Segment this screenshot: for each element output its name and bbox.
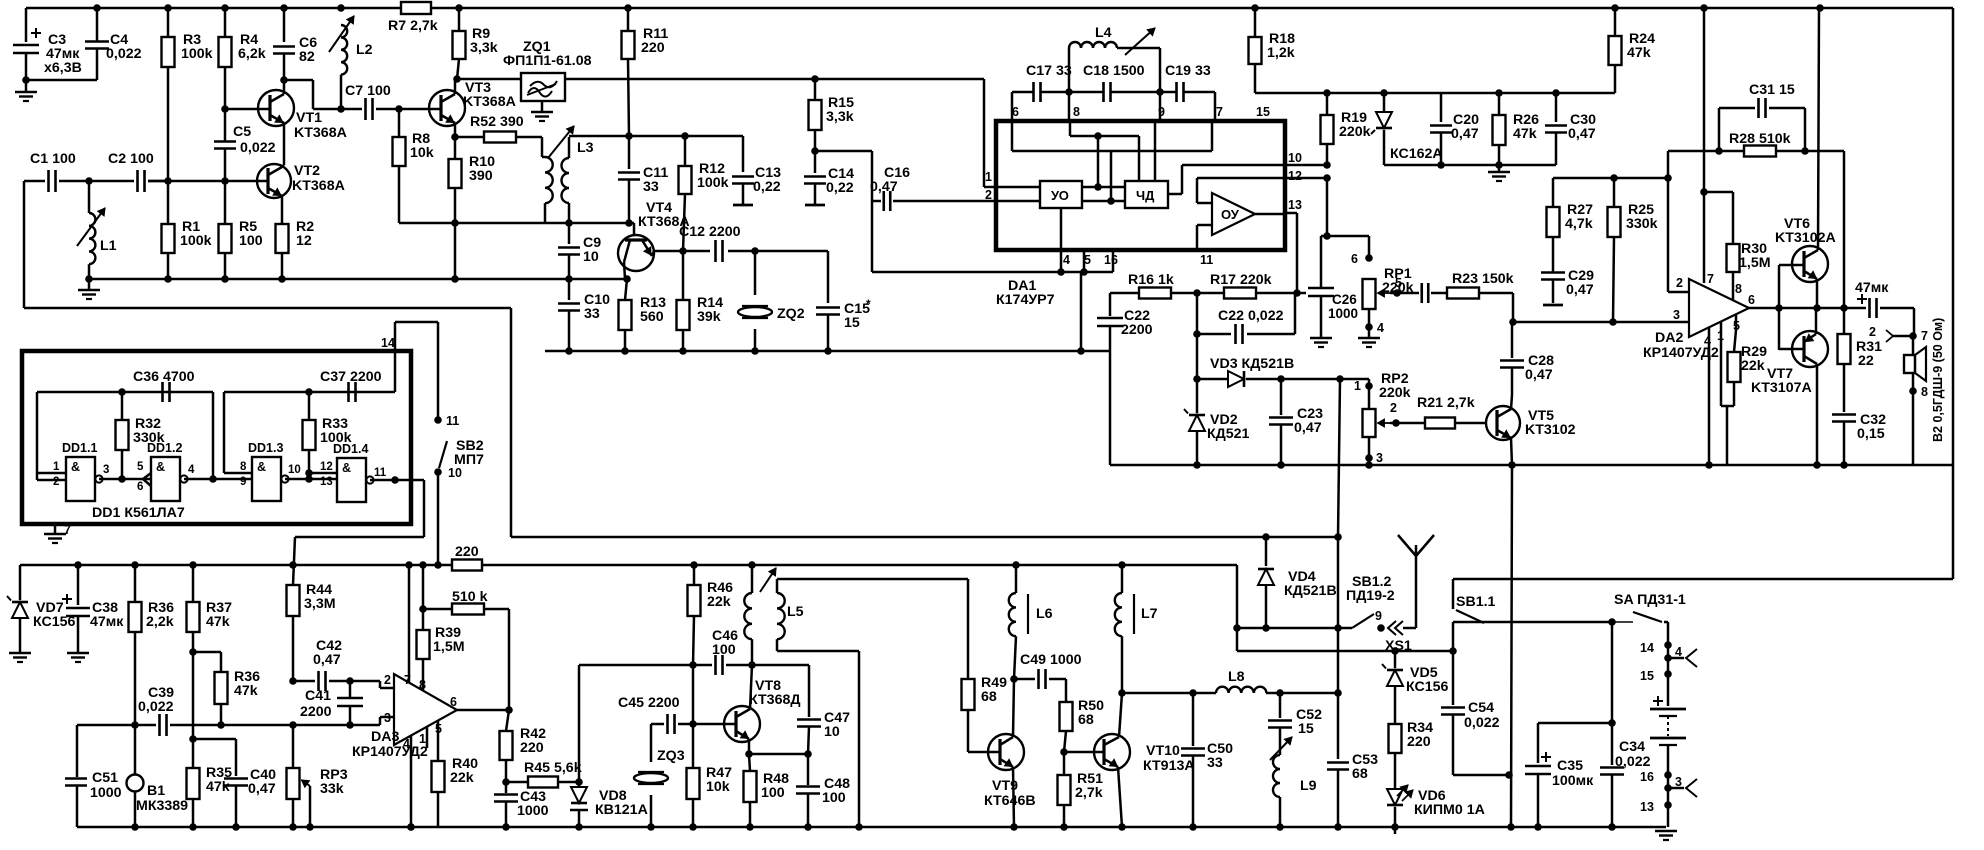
- node R33 to DD1.4 inputs: [305, 469, 313, 477]
- svg-text:330k: 330k: [1626, 216, 1658, 232]
- node y165 junctions: [1323, 161, 1331, 169]
- microphone B1: [134, 725, 137, 775]
- svg-text:47k: 47k: [206, 779, 230, 795]
- svg-text:7: 7: [1216, 105, 1223, 119]
- svg-text:0,47: 0,47: [870, 179, 898, 195]
- svg-text:C22 0,022: C22 0,022: [1218, 308, 1284, 324]
- resistor R25: [1610, 174, 1618, 182]
- node R42 bottom: [502, 778, 510, 786]
- svg-text:L8: L8: [1228, 669, 1245, 685]
- inductor L3 left winding: [541, 137, 544, 157]
- svg-text:82: 82: [299, 49, 315, 65]
- resistor R47: [692, 724, 695, 768]
- svg-text:0,022: 0,022: [1615, 754, 1651, 770]
- svg-text:12: 12: [1288, 169, 1302, 183]
- wire y628 line: [1237, 627, 1352, 630]
- node R16/R17: [1193, 289, 1201, 297]
- svg-text:7: 7: [1921, 329, 1928, 343]
- svg-text:7: 7: [64, 523, 71, 537]
- capacitor C22 2200: [1109, 293, 1112, 316]
- svg-text:0,022: 0,022: [138, 699, 174, 715]
- wire speaker feed: [1913, 308, 1916, 336]
- svg-text:6: 6: [450, 695, 457, 709]
- gate DD1.1 pins: [37, 472, 66, 475]
- node pin12 junction: [1323, 174, 1331, 182]
- svg-text:ZQ2: ZQ2: [777, 306, 805, 322]
- svg-text:2: 2: [1676, 276, 1683, 290]
- svg-text:L9: L9: [1300, 778, 1317, 794]
- svg-text:KT3102A: KT3102A: [1775, 230, 1836, 246]
- capacitor C34: [1611, 622, 1614, 723]
- block ЧД: [1125, 181, 1168, 208]
- wire receive line y537: [511, 536, 1338, 539]
- svg-text:1000: 1000: [90, 785, 122, 801]
- svg-text:ПД19-2: ПД19-2: [1346, 588, 1395, 604]
- svg-text:VT1: VT1: [296, 110, 322, 126]
- capacitor C6: [283, 8, 286, 42]
- svg-text:0,47: 0,47: [248, 781, 276, 797]
- node C54 to main column: [1505, 771, 1513, 779]
- wire pin12 down to RP1: [1326, 178, 1329, 236]
- resistor R50: [1060, 702, 1073, 731]
- svg-text:К174УР7: К174УР7: [996, 292, 1055, 308]
- wire pin3 line y322: [1513, 321, 1689, 324]
- capacitor C10: [568, 279, 571, 300]
- pin 7 ground: [54, 524, 57, 533]
- IC DD1 box: [22, 351, 411, 524]
- svg-text:&: &: [342, 461, 351, 475]
- wire DA3 output: [457, 709, 509, 712]
- svg-text:0,15: 0,15: [1857, 426, 1885, 442]
- node DD1.2 output: [209, 475, 217, 483]
- svg-text:C41: C41: [305, 688, 331, 704]
- svg-text:0,22: 0,22: [753, 179, 781, 195]
- node XS1 junctions: [1391, 647, 1399, 655]
- svg-text:10: 10: [448, 466, 462, 480]
- node R25 bottom: [1609, 318, 1617, 326]
- svg-text:3: 3: [1673, 308, 1680, 322]
- node R44 bottom: [289, 677, 297, 685]
- svg-text:12: 12: [320, 461, 333, 473]
- wire pin 12 to ОУ input: [1197, 177, 1285, 180]
- node VT1 collector: [280, 76, 288, 84]
- wire squelch column x1338: [1338, 379, 1340, 537]
- node C3/C4: [22, 76, 30, 84]
- svg-text:14: 14: [1640, 641, 1654, 655]
- ground L1: [88, 279, 91, 290]
- resistor R51: [1063, 752, 1066, 775]
- svg-text:C1 100: C1 100: [30, 151, 76, 167]
- capacitor C7: [341, 108, 362, 111]
- svg-text:100: 100: [239, 233, 263, 249]
- svg-text:8: 8: [240, 461, 247, 473]
- svg-text:1: 1: [985, 170, 992, 184]
- wire DD1.4 output to R44: [423, 480, 426, 537]
- capacitor C39: [158, 714, 161, 736]
- svg-text:68: 68: [1352, 766, 1368, 782]
- transistor VT2: [257, 164, 291, 198]
- node y628 junctions: [1233, 624, 1241, 632]
- resistor R27: [1552, 178, 1555, 207]
- svg-text:3,3k: 3,3k: [470, 40, 498, 56]
- inductor L3 right winding: [568, 137, 571, 158]
- svg-text:2: 2: [53, 476, 59, 488]
- svg-text:100k: 100k: [697, 175, 729, 191]
- diode VD4: [1262, 533, 1270, 541]
- capacitor C13: [742, 136, 745, 172]
- svg-text:&: &: [257, 460, 266, 474]
- inductor L7: [1121, 565, 1124, 593]
- node contact 14: [1664, 641, 1672, 649]
- svg-text:22k: 22k: [707, 594, 731, 610]
- svg-text:6: 6: [1748, 293, 1755, 307]
- svg-text:220: 220: [1407, 734, 1431, 750]
- pin 16 external: [1112, 250, 1115, 272]
- capacitor C26: [1308, 287, 1334, 290]
- transistor VT6: [1792, 246, 1828, 282]
- svg-text:0,47: 0,47: [313, 652, 341, 668]
- connector XS1: [1388, 621, 1396, 635]
- capacitor C23: [1277, 375, 1285, 383]
- svg-text:3,3M: 3,3M: [304, 596, 336, 612]
- svg-text:0,022: 0,022: [106, 46, 142, 62]
- resistor R33: [305, 388, 313, 396]
- node VT9 collector / C49 / L6: [1010, 675, 1018, 683]
- wire varactor line y665: [579, 664, 712, 667]
- resistor R10: [454, 137, 457, 159]
- svg-text:&: &: [71, 460, 80, 474]
- node VT10 base: [1060, 748, 1068, 756]
- pin 12 external: [1285, 177, 1327, 180]
- svg-text:100мк: 100мк: [1552, 773, 1594, 789]
- wire ОУ output pin 13: [1255, 213, 1285, 216]
- capacitor C53: [1337, 693, 1340, 759]
- wire ground bus A: [89, 278, 627, 281]
- resistor R12: [684, 136, 687, 166]
- crystal filter ZQ1: [521, 73, 565, 101]
- svg-text:4,7k: 4,7k: [1565, 216, 1593, 232]
- svg-text:16: 16: [1640, 770, 1654, 784]
- svg-text:C37 2200: C37 2200: [320, 369, 382, 385]
- svg-text:C34: C34: [1619, 739, 1645, 755]
- zener diode VD1 КС162А: [1383, 93, 1386, 112]
- svg-text:C49 1000: C49 1000: [1020, 652, 1082, 668]
- ground R26: [1498, 165, 1501, 172]
- svg-text:10: 10: [583, 249, 599, 265]
- svg-text:5: 5: [1395, 276, 1402, 290]
- node y93 junctions: [1323, 89, 1331, 97]
- transistor VT5: [1486, 406, 1520, 440]
- svg-text:L7: L7: [1141, 606, 1158, 622]
- gate DD1.1: [66, 457, 95, 501]
- svg-text:C2 100: C2 100: [108, 151, 154, 167]
- resistor R23: [1447, 288, 1479, 299]
- capacitor C3: [25, 8, 28, 42]
- wire top supply bus: [26, 7, 401, 10]
- inductor L2: [341, 25, 347, 75]
- svg-text:68: 68: [1078, 712, 1094, 728]
- svg-text:33: 33: [643, 179, 659, 195]
- svg-text:5: 5: [1084, 253, 1091, 267]
- svg-text:KT368A: KT368A: [292, 178, 345, 194]
- capacitor C4: [96, 8, 99, 42]
- svg-text:КС156: КС156: [1406, 679, 1448, 695]
- wire pin7 supply: [1703, 8, 1706, 283]
- svg-text:0,47: 0,47: [1525, 367, 1553, 383]
- wire feedback 510k line: [423, 608, 452, 611]
- node L4 right: [1156, 88, 1164, 96]
- gate DD1.3: [252, 457, 281, 501]
- svg-text:0,022: 0,022: [240, 140, 276, 156]
- capacitor C17: [1032, 82, 1035, 102]
- svg-text:0,47: 0,47: [1566, 282, 1594, 298]
- potentiometer RP2: [1368, 379, 1371, 386]
- wire SA to battery column: [1664, 621, 1668, 624]
- crystal ZQ2: [754, 251, 757, 295]
- gate DD1.4: [337, 458, 366, 502]
- transistor VT1: [258, 90, 294, 126]
- wire C17-C19 line: [1012, 91, 1034, 94]
- wire УО to ЧД lower: [1082, 200, 1125, 203]
- node C52 top: [1276, 689, 1284, 697]
- svg-text:47k: 47k: [1627, 45, 1651, 61]
- svg-text:R23 150k: R23 150k: [1452, 271, 1514, 287]
- svg-text:1: 1: [1354, 379, 1361, 393]
- zener diode VD2: [1196, 379, 1199, 413]
- svg-text:15: 15: [1640, 669, 1654, 683]
- svg-text:&: &: [156, 460, 165, 474]
- svg-text:DA2: DA2: [1655, 330, 1683, 346]
- capacitor C19: [1175, 82, 1178, 102]
- node contact 16: [1664, 771, 1672, 779]
- svg-text:6,2k: 6,2k: [238, 46, 266, 62]
- node bus A junctions: [85, 275, 93, 283]
- wire left edge down: [23, 181, 26, 308]
- wire DA2 output: [1749, 307, 1844, 310]
- prong 4: [1664, 654, 1672, 662]
- svg-text:100: 100: [712, 642, 736, 658]
- svg-text:6: 6: [137, 481, 143, 493]
- svg-text:УО: УО: [1051, 188, 1069, 203]
- svg-text:2: 2: [985, 188, 992, 202]
- resistor R8: [398, 109, 401, 137]
- svg-text:13: 13: [320, 476, 333, 488]
- svg-text:330k: 330k: [133, 430, 165, 446]
- gate DD1.2 pins 5 6: [143, 473, 151, 479]
- svg-text:100k: 100k: [181, 46, 213, 62]
- pin 1 line: [996, 186, 1040, 189]
- inductor L9: [1273, 755, 1280, 797]
- svg-text:100: 100: [761, 785, 785, 801]
- IC DA1 box: [996, 121, 1285, 250]
- wire DA3 pin1 stub: [426, 727, 429, 748]
- capacitor C54: [1452, 651, 1455, 705]
- capacitor C36: [161, 382, 164, 402]
- resistor R45: [506, 781, 528, 784]
- crystal ZQ3: [650, 724, 653, 762]
- svg-text:КТ913А: КТ913А: [1143, 758, 1195, 774]
- transistor VT3: [429, 90, 465, 126]
- resistor R35: [192, 739, 195, 768]
- svg-text:3: 3: [384, 711, 391, 725]
- svg-text:4: 4: [1377, 321, 1384, 335]
- capacitor C27: [1397, 292, 1419, 295]
- svg-text:КТ368Д: КТ368Д: [749, 692, 800, 708]
- node L2/C7: [337, 105, 345, 113]
- wire right border: [1952, 8, 1955, 579]
- resistor R4: [224, 8, 227, 37]
- capacitor C1: [24, 180, 45, 183]
- pin 6 internal: [1011, 121, 1014, 151]
- battery GB1: [1667, 674, 1670, 706]
- node contact 15: [1667, 645, 1670, 674]
- wire R46 to base node: [692, 665, 695, 724]
- resistor R5: [224, 181, 227, 224]
- pin 5 external: [1083, 250, 1086, 272]
- svg-text:КД521: КД521: [1207, 426, 1250, 442]
- svg-text:47k: 47k: [206, 614, 230, 630]
- ground C3: [25, 80, 28, 92]
- resistor R31: [1843, 308, 1846, 334]
- capacitor C30: [1555, 93, 1558, 122]
- inductor L5 left winding: [751, 565, 754, 593]
- capacitor C42: [293, 680, 315, 683]
- svg-text:C26: C26: [1332, 292, 1357, 307]
- node VD8 top: [575, 778, 583, 786]
- wire bus E supply: [20, 564, 452, 567]
- svg-text:390: 390: [469, 168, 493, 184]
- resistor R11: [627, 8, 630, 31]
- wire L5 right bottom ground: [777, 650, 859, 653]
- speaker B2: [1912, 336, 1915, 355]
- svg-text:4: 4: [1063, 253, 1070, 267]
- inductor L5 right winding: [776, 579, 779, 593]
- resistor R34: [1389, 724, 1402, 753]
- node L7 / VT10 collector: [1118, 689, 1126, 697]
- svg-text:220: 220: [641, 40, 665, 56]
- resistor R30: [1704, 191, 1733, 194]
- switch SB1.1: [1452, 579, 1455, 609]
- svg-text:100k: 100k: [180, 233, 212, 249]
- ground ZQ1: [541, 101, 544, 112]
- svg-text:1000: 1000: [1328, 306, 1358, 321]
- inductor L6: [1015, 565, 1018, 593]
- ground VD7: [9, 652, 31, 655]
- node contact 13: [1667, 775, 1670, 805]
- svg-text:9: 9: [240, 476, 246, 488]
- wire R10 bottom to bus A: [454, 223, 457, 279]
- op-amp ОУ inside DA1: [1212, 193, 1255, 235]
- switch SA ПД31-1: [1633, 612, 1662, 622]
- resistor R26: [1498, 93, 1501, 115]
- svg-text:L4: L4: [1095, 25, 1112, 41]
- resistor 220 series: [452, 560, 482, 571]
- svg-text:C7 100: C7 100: [345, 83, 391, 99]
- svg-text:КВ121А: КВ121А: [595, 802, 648, 818]
- resistor R17: [1224, 288, 1256, 299]
- op-amp DA3: [394, 674, 457, 745]
- svg-text:13: 13: [1640, 800, 1654, 814]
- svg-text:47k: 47k: [234, 683, 258, 699]
- wire mic line y725: [77, 724, 156, 727]
- resistor R19: [1326, 93, 1329, 115]
- svg-text:11: 11: [1200, 253, 1213, 267]
- svg-text:33k: 33k: [320, 781, 344, 797]
- node R1 top: [164, 177, 172, 185]
- wire pin 11 to ОУ input: [1197, 224, 1212, 227]
- svg-text:R7 2,7k: R7 2,7k: [388, 18, 438, 34]
- node R35 C40 node: [189, 735, 197, 743]
- svg-text:R45 5,6k: R45 5,6k: [524, 760, 582, 776]
- pin 4 external: [1060, 250, 1063, 272]
- varactor VD8: [578, 665, 581, 782]
- resistor R36: [134, 565, 137, 602]
- transistor VT4: [618, 235, 654, 271]
- svg-text:R52 390: R52 390: [470, 114, 524, 130]
- svg-text:15: 15: [844, 315, 860, 331]
- wire y723 line: [1538, 722, 1612, 725]
- resistor R9: [458, 8, 461, 31]
- inductor L8: [1216, 687, 1266, 693]
- svg-text:12: 12: [296, 233, 312, 249]
- svg-text:22k: 22k: [450, 770, 474, 786]
- potentiometer RP3: [292, 725, 295, 768]
- svg-text:11: 11: [374, 467, 387, 479]
- svg-text:КД521В: КД521В: [1284, 583, 1337, 599]
- resistor R13: [625, 279, 627, 300]
- svg-text:15: 15: [1256, 105, 1270, 119]
- wire y93 line: [1255, 92, 1615, 95]
- svg-text:DD1 К561ЛА7: DD1 К561ЛА7: [92, 505, 185, 521]
- svg-text:10k: 10k: [410, 145, 434, 161]
- svg-text:B2 0,5ГДШ-9 (50 Ом): B2 0,5ГДШ-9 (50 Ом): [1931, 318, 1945, 442]
- capacitor C46: [714, 655, 717, 675]
- capacitor C50: [1189, 689, 1197, 697]
- svg-text:2: 2: [1869, 325, 1876, 339]
- svg-text:8: 8: [1735, 282, 1742, 296]
- svg-text:C54: C54: [1468, 700, 1494, 716]
- wire tank line y136: [569, 135, 743, 138]
- node R8/R10/L3 line: [451, 219, 459, 227]
- wire base column VT6 VT7: [1778, 265, 1781, 350]
- capacitor C14: [814, 151, 817, 173]
- svg-text:C51: C51: [92, 770, 118, 786]
- capacitor C52: [1279, 693, 1282, 718]
- transistor VT9: [988, 734, 1024, 770]
- svg-text:2: 2: [1390, 401, 1397, 415]
- capacitor C48: [807, 754, 810, 785]
- node R11 bottom: [625, 132, 633, 140]
- transistor VT8: [724, 706, 760, 742]
- wire left column x511: [24, 307, 511, 310]
- pin 8 internal: [1069, 121, 1072, 136]
- gate DD1.3 output pin 10: [285, 478, 337, 481]
- capacitor C15: [755, 250, 828, 253]
- svg-text:10: 10: [1288, 151, 1302, 165]
- svg-text:КТ646В: КТ646В: [984, 793, 1036, 809]
- capacitor C9: [568, 223, 571, 244]
- svg-text:100k: 100k: [320, 430, 352, 446]
- svg-text:10: 10: [288, 464, 301, 476]
- resistor R2: [281, 223, 284, 226]
- capacitor C47: [752, 664, 809, 667]
- antenna W1: [1403, 627, 1416, 630]
- node bus B junctions: [565, 347, 573, 355]
- pin 2 line: [996, 200, 1040, 203]
- wire IF ground bus B: [545, 350, 1110, 353]
- capacitor 47мк output: [1844, 307, 1866, 310]
- svg-text:14: 14: [381, 336, 395, 350]
